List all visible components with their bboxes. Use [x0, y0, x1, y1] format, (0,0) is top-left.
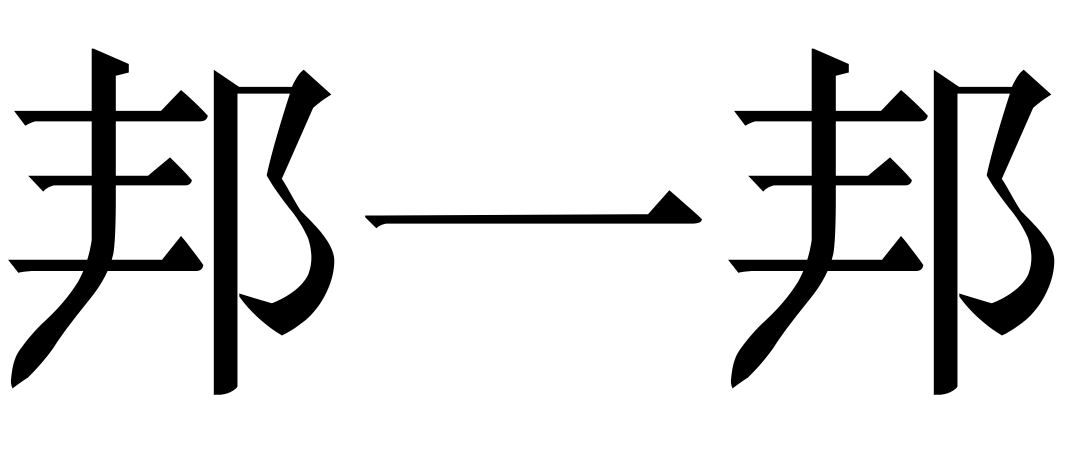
character 邦 (right): three horizontal strokes, 阝 vertical and connector [728, 70, 1023, 395]
character 邦 (right): bend-hook stroke of 阝 [959, 70, 1054, 336]
character 邦 (left): bend-hook stroke of 阝 [239, 70, 334, 336]
character 邦 (left): three horizontal strokes, 阝 vertical and connector [8, 70, 303, 395]
character 邦 (left): vertical stem with left-falling curve of 丰 [11, 49, 129, 389]
character 一 (middle) [365, 190, 702, 228]
character 邦 (right): vertical stem with left-falling curve of 丰 [731, 49, 849, 389]
